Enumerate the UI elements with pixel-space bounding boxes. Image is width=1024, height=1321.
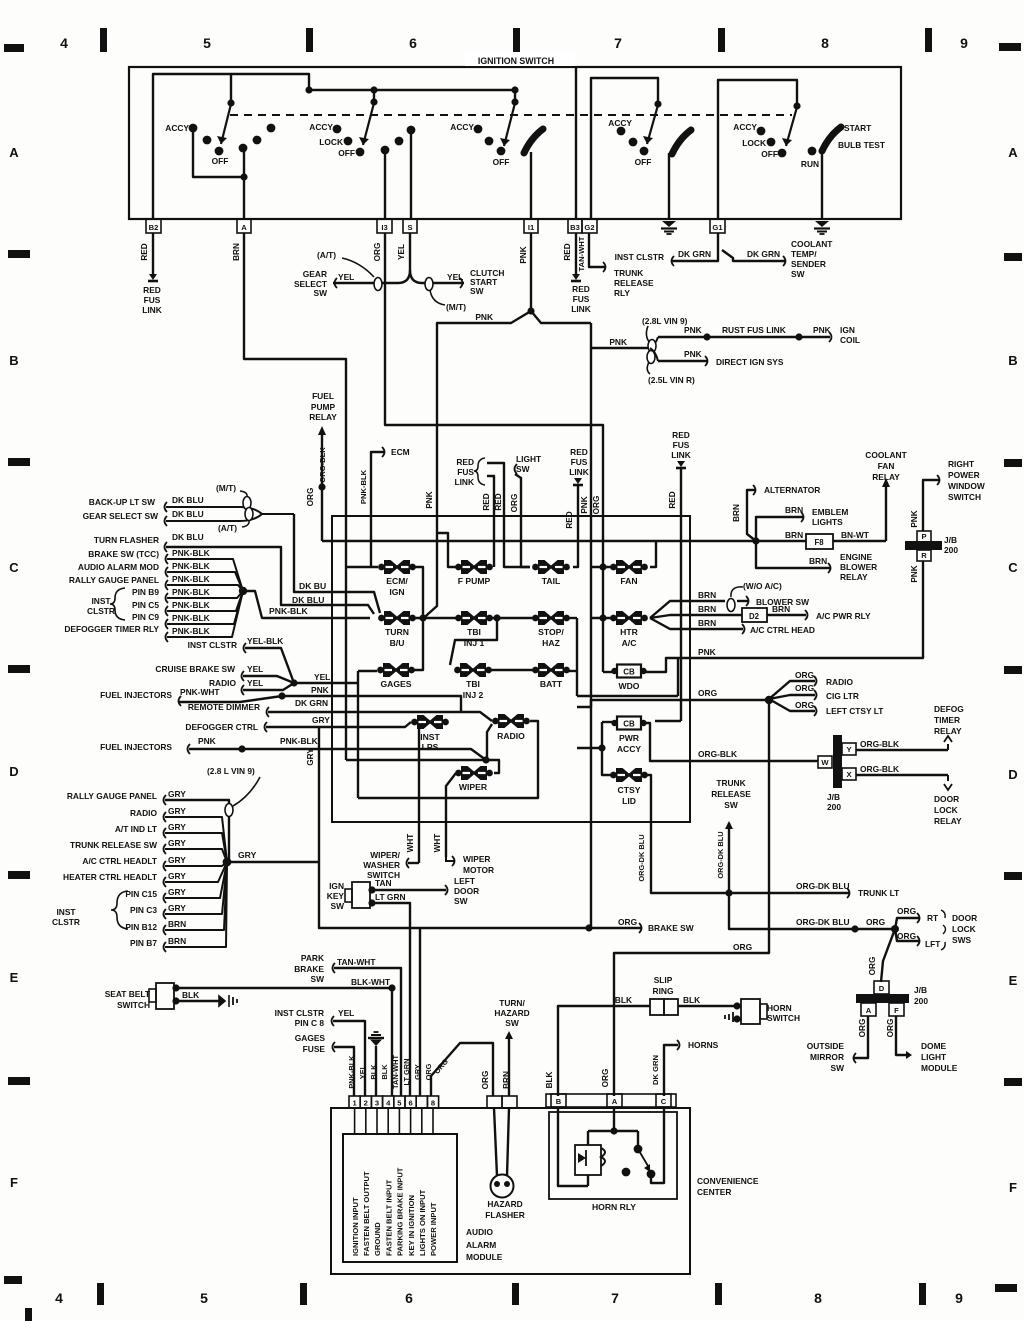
svg-text:TAIL: TAIL — [542, 576, 560, 586]
svg-text:WDO: WDO — [618, 681, 639, 691]
wire GRY bus output — [227, 850, 641, 932]
svg-text:WINDOW: WINDOW — [948, 481, 985, 491]
svg-text:RADIO: RADIO — [826, 677, 853, 687]
dashed rotary track — [230, 114, 792, 116]
loop A-T crossover — [374, 278, 382, 291]
J/B 200 bottom — [856, 981, 928, 1037]
svg-text:GRY: GRY — [168, 806, 186, 816]
svg-text:GRY: GRY — [168, 855, 186, 865]
svg-text:RED: RED — [482, 493, 491, 510]
svg-text:RELEASE: RELEASE — [614, 278, 654, 288]
svg-text:5: 5 — [203, 35, 211, 51]
svg-text:BLK: BLK — [380, 1064, 389, 1080]
wire BRN from A — [232, 233, 378, 760]
svg-text:YEL-BLK: YEL-BLK — [247, 636, 283, 646]
svg-text:LINK: LINK — [454, 477, 474, 487]
svg-text:P: P — [921, 532, 926, 541]
svg-text:KEY: KEY — [327, 891, 345, 901]
fuse WIPER — [455, 766, 493, 792]
svg-text:BRN: BRN — [809, 556, 827, 566]
svg-text:TBI: TBI — [467, 627, 481, 637]
svg-text:PWR: PWR — [619, 733, 640, 743]
svg-text:LINK: LINK — [569, 467, 589, 477]
wire ORG/ORG-BLK fuel pump relay — [306, 426, 327, 541]
terminal B3 — [568, 219, 582, 233]
wire ORG to J/B D — [868, 929, 895, 982]
svg-text:HAZ: HAZ — [542, 638, 560, 648]
wire DK GRN horns — [651, 1040, 719, 1096]
svg-text:DK BLU: DK BLU — [292, 595, 324, 605]
svg-text:MOTOR: MOTOR — [463, 865, 494, 875]
label LIGHT SW — [510, 454, 542, 567]
svg-text:RED: RED — [563, 243, 572, 260]
svg-text:GRY: GRY — [312, 715, 330, 725]
svg-text:RADIO: RADIO — [130, 808, 157, 818]
svg-text:S: S — [407, 223, 412, 232]
svg-text:FUEL INJECTORS: FUEL INJECTORS — [100, 690, 172, 700]
wire STOP-BATT link — [567, 618, 678, 696]
svg-text:PNK: PNK — [609, 337, 627, 347]
svg-text:ORG-DK BLU: ORG-DK BLU — [716, 831, 725, 878]
svg-text:J/B: J/B — [944, 535, 957, 545]
svg-text:LINK: LINK — [142, 305, 162, 315]
svg-text:B/U: B/U — [390, 638, 405, 648]
svg-text:200: 200 — [827, 802, 841, 812]
svg-text:WASHER: WASHER — [363, 860, 400, 870]
wire TAN-WHT from G2 — [577, 233, 606, 272]
wire ORG-BLK to door lock relay — [856, 764, 962, 826]
wire PNK to J/B 200 right — [645, 561, 923, 672]
svg-text:IGNITION INPUT: IGNITION INPUT — [351, 1197, 360, 1256]
svg-text:D2: D2 — [749, 612, 760, 621]
svg-text:SENDER: SENDER — [791, 259, 826, 269]
label RED FUS LINK (B3) — [571, 284, 591, 314]
svg-text:RELEASE: RELEASE — [711, 789, 751, 799]
svg-text:FAN: FAN — [620, 576, 637, 586]
wire bus to wiper right — [346, 756, 499, 773]
svg-text:PNK-BLK: PNK-BLK — [347, 1055, 356, 1089]
wire PNK from I1 — [519, 233, 535, 315]
wire ORG-DK BLU from trunk release sw — [716, 823, 895, 933]
svg-text:DK BLU: DK BLU — [172, 509, 204, 519]
svg-text:IGN: IGN — [840, 325, 855, 335]
svg-text:B: B — [9, 353, 18, 368]
svg-text:DEFOGGER TIMER RLY: DEFOGGER TIMER RLY — [64, 624, 159, 634]
svg-text:MIRROR: MIRROR — [810, 1052, 844, 1062]
svg-text:FUS: FUS — [573, 294, 590, 304]
svg-text:RADIO: RADIO — [497, 731, 525, 741]
loop A/T (C-row) — [218, 508, 253, 534]
svg-text:SW: SW — [314, 288, 328, 298]
svg-text:9: 9 — [960, 35, 968, 51]
svg-text:RUST FUS LINK: RUST FUS LINK — [722, 325, 786, 335]
svg-text:BLK: BLK — [545, 1072, 554, 1089]
svg-text:2: 2 — [364, 1099, 368, 1108]
wire ORG bus to fan — [577, 688, 773, 707]
svg-text:LPS: LPS — [422, 742, 439, 752]
fuse HTR A/C — [610, 611, 648, 648]
horn relay internals — [558, 1107, 664, 1186]
wire PARK BRAKE SW TAN-WHT — [294, 953, 401, 1096]
svg-text:PIN B9: PIN B9 — [132, 587, 159, 597]
svg-text:INJ 2: INJ 2 — [463, 690, 484, 700]
wire PNK drop to F PUMP — [437, 533, 456, 567]
svg-text:X: X — [846, 770, 851, 779]
svg-text:PARK: PARK — [301, 953, 324, 963]
svg-text:PNK: PNK — [684, 349, 702, 359]
wire WDO feed — [603, 671, 613, 673]
svg-text:A: A — [1008, 145, 1018, 160]
label RED FUS LINK (fan) — [655, 430, 691, 721]
svg-text:(A/T): (A/T) — [317, 250, 336, 260]
svg-text:YEL: YEL — [447, 272, 463, 282]
fuse F PUMP — [455, 560, 493, 586]
svg-text:BRN: BRN — [785, 530, 803, 540]
svg-text:COIL: COIL — [840, 335, 860, 345]
svg-text:BLK: BLK — [369, 1064, 378, 1080]
svg-text:RED: RED — [456, 457, 474, 467]
svg-text:RELAY: RELAY — [840, 572, 868, 582]
terminal B2 — [146, 219, 161, 233]
svg-text:INST: INST — [56, 907, 76, 917]
svg-text:PNK-BLK: PNK-BLK — [172, 613, 210, 623]
label WIPER WASHER SWITCH — [363, 850, 409, 880]
svg-text:ORG: ORG — [592, 496, 601, 515]
svg-text:BRN: BRN — [698, 618, 716, 628]
wire DK GRN from G1 — [672, 233, 786, 266]
svg-text:A: A — [9, 145, 19, 160]
svg-text:MODULE: MODULE — [921, 1063, 958, 1073]
svg-text:BRN: BRN — [772, 604, 790, 614]
svg-text:BRAKE SW (TCC): BRAKE SW (TCC) — [88, 549, 159, 559]
svg-text:RELAY: RELAY — [934, 816, 962, 826]
svg-text:HORN RLY: HORN RLY — [592, 1202, 636, 1212]
svg-text:TAN-WHT: TAN-WHT — [337, 957, 376, 967]
svg-text:F PUMP: F PUMP — [458, 576, 491, 586]
svg-text:CENTER: CENTER — [697, 1187, 731, 1197]
svg-text:RT: RT — [927, 913, 939, 923]
label 2.8L VIN 9 — [642, 316, 688, 353]
wire BACK-UP LT SW — [89, 495, 294, 514]
svg-text:INST CLSTR: INST CLSTR — [275, 1008, 324, 1018]
svg-text:B3: B3 — [570, 223, 580, 232]
svg-text:PARKING BRAKE INPUT: PARKING BRAKE INPUT — [396, 1167, 405, 1256]
svg-text:INST: INST — [420, 732, 440, 742]
svg-text:BLK-WHT: BLK-WHT — [351, 977, 391, 987]
fuse STOP/HAZ — [532, 611, 570, 648]
terminal G2 — [582, 219, 597, 233]
svg-text:SW: SW — [454, 896, 468, 906]
svg-text:AUDIO ALARM MOD: AUDIO ALARM MOD — [78, 562, 159, 572]
svg-text:CIG LTR: CIG LTR — [826, 691, 859, 701]
svg-text:YEL: YEL — [247, 664, 263, 674]
svg-text:ENGINE: ENGINE — [840, 552, 873, 562]
svg-text:6: 6 — [405, 1290, 413, 1306]
fuse INST LPS — [411, 715, 449, 752]
svg-text:GAGES: GAGES — [295, 1033, 326, 1043]
svg-text:RING: RING — [653, 986, 674, 996]
svg-text:PNK-BLK: PNK-BLK — [172, 561, 210, 571]
svg-text:FUS: FUS — [144, 295, 161, 305]
svg-text:8: 8 — [814, 1290, 822, 1306]
svg-text:LINK: LINK — [671, 450, 691, 460]
svg-text:DIRECT IGN SYS: DIRECT IGN SYS — [716, 357, 784, 367]
svg-text:DOOR: DOOR — [934, 794, 959, 804]
svg-text:DK GRN: DK GRN — [295, 698, 328, 708]
svg-text:B: B — [1008, 353, 1017, 368]
svg-text:ORG: ORG — [868, 957, 877, 976]
svg-text:BLK: BLK — [615, 995, 632, 1005]
svg-text:ORG: ORG — [795, 670, 814, 680]
svg-text:PNK-WHT: PNK-WHT — [180, 687, 220, 697]
svg-text:TAN-WHT: TAN-WHT — [391, 1055, 400, 1089]
svg-text:R: R — [921, 551, 927, 560]
svg-text:RED: RED — [140, 243, 149, 260]
ign key switch symbol — [327, 881, 376, 911]
wire RADIO right drop — [358, 721, 538, 798]
circuit breaker PWR ACCY — [611, 717, 646, 755]
svg-text:HORNS: HORNS — [688, 1040, 719, 1050]
svg-text:PIN C15: PIN C15 — [125, 889, 157, 899]
fuse TURN B/U — [378, 611, 416, 648]
svg-text:A: A — [241, 223, 247, 232]
svg-text:HAZARD: HAZARD — [494, 1008, 529, 1018]
svg-text:PNK: PNK — [425, 491, 434, 508]
svg-text:RED: RED — [672, 430, 690, 440]
svg-text:B: B — [556, 1097, 562, 1106]
svg-text:ORG: ORG — [897, 931, 916, 941]
svg-text:OFF: OFF — [493, 157, 510, 167]
svg-text:ALTERNATOR: ALTERNATOR — [764, 485, 820, 495]
svg-text:8: 8 — [431, 1099, 435, 1108]
svg-text:ORG: ORG — [858, 1019, 867, 1038]
ignition switch contact cluster 2 (ACCY/LOCK/OFF) — [309, 103, 415, 219]
wire ORG to RADIO — [769, 670, 853, 699]
svg-text:I3: I3 — [381, 223, 387, 232]
svg-text:ORG-BLK: ORG-BLK — [860, 739, 899, 749]
svg-text:GRY: GRY — [306, 748, 315, 766]
wire WHT to wiper washer switch — [406, 729, 419, 863]
svg-text:WIPER: WIPER — [463, 854, 490, 864]
svg-text:SW: SW — [311, 974, 325, 984]
svg-text:LIGHT: LIGHT — [921, 1052, 947, 1062]
svg-text:ORG-DK BLU: ORG-DK BLU — [637, 834, 646, 881]
svg-text:HTR: HTR — [620, 627, 638, 637]
wire RADIO left drop — [487, 724, 492, 760]
svg-text:RIGHT: RIGHT — [948, 459, 975, 469]
wire PNK left branch — [425, 311, 531, 533]
wire ORG-BLK to defog timer relay — [856, 704, 964, 750]
svg-text:ORG-BLK: ORG-BLK — [698, 749, 737, 759]
svg-text:START: START — [844, 123, 872, 133]
svg-text:LOCK: LOCK — [952, 924, 976, 934]
convenience center outer box — [331, 1108, 690, 1274]
svg-text:OFF: OFF — [212, 156, 229, 166]
svg-text:GEAR SELECT SW: GEAR SELECT SW — [83, 511, 158, 521]
wire BN-WT to coolant fan relay — [833, 450, 908, 541]
J/B 200 center — [818, 735, 856, 812]
svg-text:RED: RED — [143, 285, 161, 295]
wire alternator stub — [732, 485, 820, 541]
terminal A — [237, 219, 251, 233]
svg-text:IGN: IGN — [389, 587, 404, 597]
wire PNK right branch — [531, 311, 650, 348]
svg-text:BRN: BRN — [168, 936, 186, 946]
svg-text:BLK: BLK — [182, 990, 199, 1000]
svg-text:ACCY: ACCY — [608, 118, 632, 128]
audio alarm module pin row — [349, 1096, 439, 1108]
svg-text:SW: SW — [470, 286, 484, 296]
terminal I3 — [377, 219, 392, 233]
svg-text:ORG: ORG — [373, 243, 382, 262]
wire FAN right to BRN bus — [650, 542, 656, 567]
svg-text:D: D — [9, 764, 18, 779]
svg-text:DK BLU: DK BLU — [172, 532, 204, 542]
svg-text:FLASHER: FLASHER — [485, 1210, 525, 1220]
seat belt switch — [105, 983, 180, 1010]
svg-text:INST: INST — [91, 596, 111, 606]
svg-text:J/B: J/B — [827, 792, 840, 802]
wire internal bus — [227, 74, 518, 107]
svg-text:LOCK: LOCK — [742, 138, 766, 148]
loop M-T crossover — [425, 278, 433, 291]
svg-text:WHT: WHT — [406, 834, 415, 853]
label RED FUS LINK (tail) — [565, 447, 589, 567]
svg-text:SWS: SWS — [952, 935, 971, 945]
svg-text:LIGHT: LIGHT — [516, 454, 542, 464]
label TRUNK LT — [796, 881, 900, 898]
wire ORG-DK BLU from CTSY LID — [637, 775, 849, 897]
wire GEAR SELECT SW (C) — [83, 509, 262, 526]
svg-text:HORN: HORN — [767, 1003, 792, 1013]
svg-text:PNK: PNK — [519, 246, 528, 263]
svg-text:ORG: ORG — [698, 688, 717, 698]
svg-text:LT GRN: LT GRN — [402, 1059, 411, 1086]
svg-text:PNK: PNK — [311, 685, 329, 695]
svg-text:(A/T): (A/T) — [218, 523, 237, 533]
wire PNK to direct ign — [650, 348, 784, 367]
wire row2 links — [413, 614, 613, 621]
svg-text:GEAR: GEAR — [303, 269, 327, 279]
label TURN HAZARD SW — [494, 998, 529, 1096]
svg-text:FASTEN BELT INPUT: FASTEN BELT INPUT — [384, 1179, 393, 1256]
label (M/T) callout — [430, 290, 466, 312]
svg-text:(M/T): (M/T) — [446, 302, 466, 312]
wire outside mirror sw — [807, 1016, 868, 1073]
svg-text:YEL: YEL — [314, 672, 330, 682]
svg-text:GROUND: GROUND — [373, 1222, 382, 1256]
svg-text:C: C — [1008, 560, 1018, 575]
label HORN SWITCH — [767, 1003, 800, 1023]
label CONVENIENCE CENTER — [697, 1176, 759, 1197]
svg-text:5: 5 — [200, 1290, 208, 1306]
svg-text:CLSTR: CLSTR — [87, 606, 115, 616]
svg-text:4: 4 — [55, 1290, 63, 1306]
svg-text:F: F — [1009, 1180, 1017, 1195]
wire PNK to ign coil — [650, 325, 860, 348]
svg-text:COOLANT: COOLANT — [865, 450, 907, 460]
svg-text:INST CLSTR: INST CLSTR — [188, 640, 237, 650]
label DOOR LOCK SWS — [941, 910, 977, 950]
svg-text:DK GRN: DK GRN — [747, 249, 780, 259]
hazard flasher — [485, 1108, 525, 1220]
svg-text:PIN C3: PIN C3 — [130, 905, 157, 915]
svg-text:A/C CTRL HEAD: A/C CTRL HEAD — [750, 625, 815, 635]
svg-text:YEL: YEL — [338, 272, 354, 282]
svg-text:PNK: PNK — [698, 647, 716, 657]
wire RADIO YEL — [209, 678, 294, 695]
svg-text:J/B: J/B — [914, 985, 927, 995]
ignition switch contact cluster 5 START/RUN — [733, 107, 886, 219]
svg-text:RED: RED — [668, 491, 677, 508]
svg-text:HEATER CTRL HEADLT: HEATER CTRL HEADLT — [63, 872, 158, 882]
svg-text:GRY: GRY — [168, 822, 186, 832]
label INST CLSTR (G1) — [615, 249, 711, 262]
wire ORG from I3 — [373, 233, 607, 672]
svg-text:PNK-BLK: PNK-BLK — [172, 600, 210, 610]
svg-text:(W/O A/C): (W/O A/C) — [743, 581, 782, 591]
wire ORG-BLK bus — [645, 723, 818, 761]
svg-text:A/T IND LT: A/T IND LT — [115, 824, 158, 834]
svg-text:PNK-BLK: PNK-BLK — [172, 626, 210, 636]
svg-text:A/C: A/C — [622, 638, 637, 648]
svg-text:ORG: ORG — [897, 906, 916, 916]
fuse F8 — [785, 530, 833, 549]
svg-text:TRUNK: TRUNK — [716, 778, 745, 788]
wire BLK-WHT — [176, 977, 396, 1096]
svg-text:PNK: PNK — [198, 736, 216, 746]
svg-text:BACK-UP LT SW: BACK-UP LT SW — [89, 497, 155, 507]
svg-text:7: 7 — [614, 35, 622, 51]
svg-text:OFF: OFF — [338, 148, 355, 158]
svg-text:BRN: BRN — [698, 604, 716, 614]
svg-text:KEY IN IGNITION: KEY IN IGNITION — [407, 1195, 416, 1256]
svg-text:BRN: BRN — [168, 919, 186, 929]
svg-text:TAN: TAN — [375, 878, 392, 888]
svg-text:TURN/: TURN/ — [499, 998, 525, 1008]
svg-text:PIN B7: PIN B7 — [130, 938, 157, 948]
svg-text:IGNITION SWITCH: IGNITION SWITCH — [478, 56, 554, 66]
svg-text:GRY: GRY — [168, 838, 186, 848]
fuse TBI INJ 1 — [455, 611, 493, 648]
label (A/T) callout — [317, 250, 374, 277]
svg-text:RELAY: RELAY — [934, 726, 962, 736]
wire RED pair stubs — [482, 463, 530, 567]
svg-text:WIPER/: WIPER/ — [370, 850, 400, 860]
wire PNK to right power window switch — [923, 459, 985, 531]
svg-text:(2.8 L VIN 9): (2.8 L VIN 9) — [207, 766, 255, 776]
wire G1 sub-branch — [718, 80, 801, 219]
svg-text:F: F — [10, 1175, 18, 1190]
svg-text:TRUNK LT: TRUNK LT — [858, 888, 900, 898]
svg-text:SWITCH: SWITCH — [948, 492, 981, 502]
svg-text:BRAKE SW: BRAKE SW — [648, 923, 694, 933]
svg-text:7: 7 — [611, 1290, 619, 1306]
ignition switch contact cluster 3 with blade — [450, 103, 543, 219]
wire D2 A/C pwr rly — [650, 604, 871, 622]
svg-text:YEL: YEL — [397, 244, 406, 260]
label WIPER MOTOR — [463, 854, 494, 875]
svg-text:PNK-BLK: PNK-BLK — [172, 548, 210, 558]
ignition switch housing box — [129, 52, 901, 219]
wires GRY fan to junction — [52, 789, 231, 952]
svg-text:RALLY GAUGE PANEL: RALLY GAUGE PANEL — [67, 791, 157, 801]
svg-text:TAN-WHT: TAN-WHT — [577, 236, 586, 271]
fuse TAIL — [532, 560, 570, 586]
svg-text:GRY: GRY — [168, 887, 186, 897]
loop M/T (C-row) — [216, 483, 251, 510]
svg-text:FUSE: FUSE — [303, 1044, 326, 1054]
